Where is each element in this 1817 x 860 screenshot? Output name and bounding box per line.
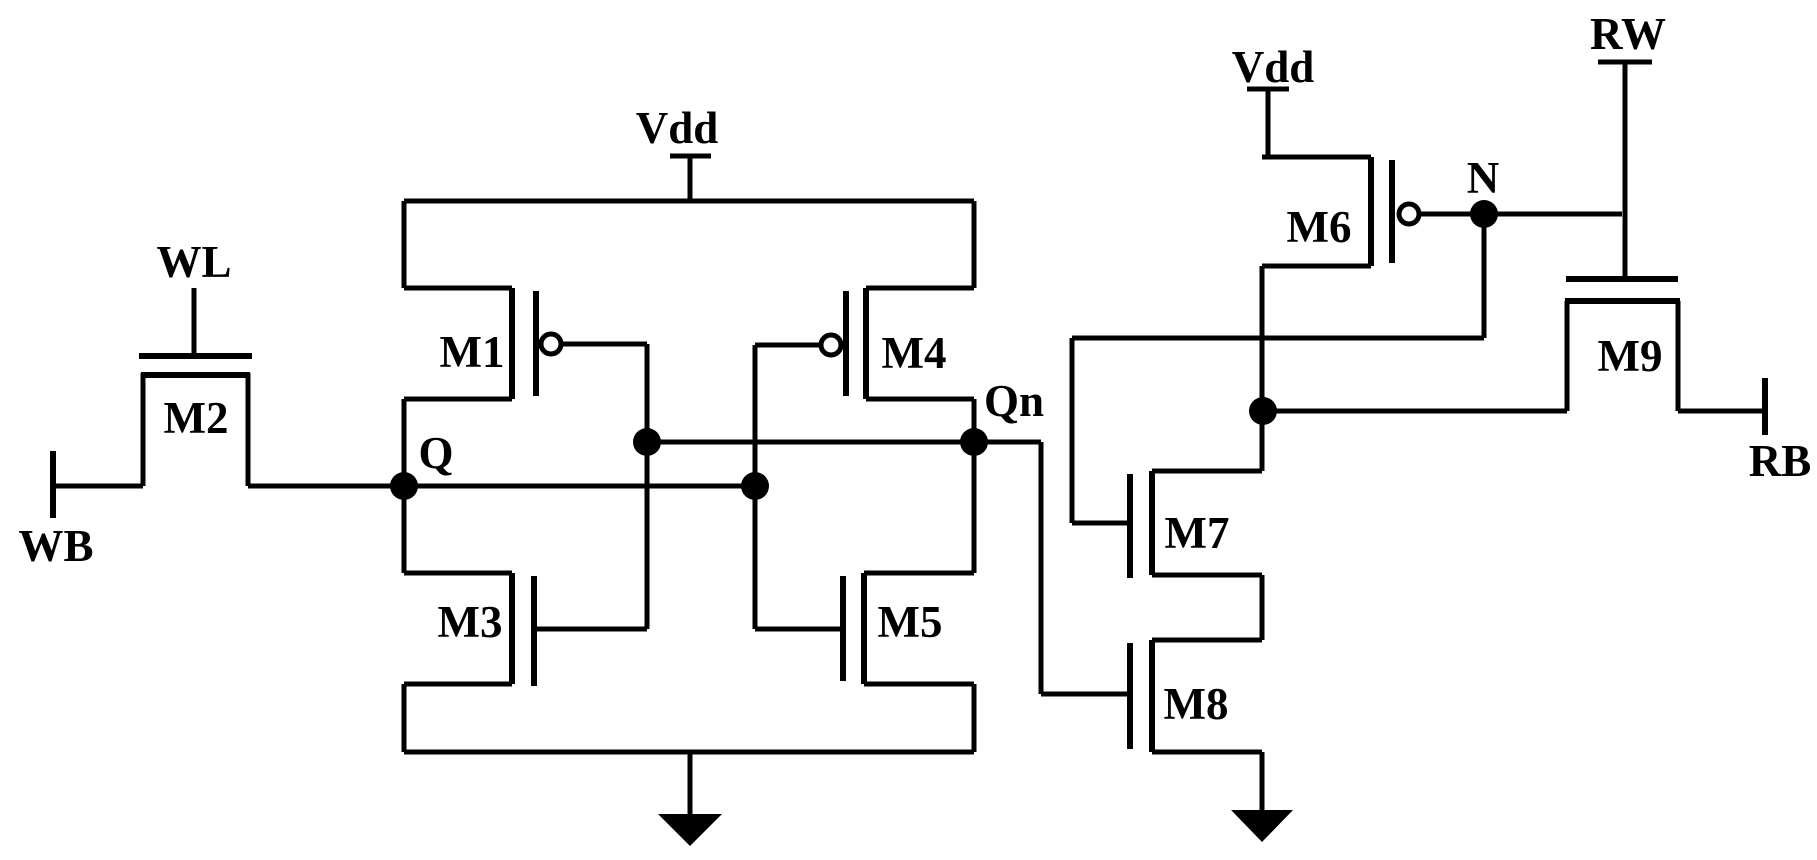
svg-text:M8: M8 (1164, 679, 1229, 729)
svg-text:M5: M5 (878, 597, 943, 647)
svg-text:Qn: Qn (984, 376, 1044, 426)
svg-text:M4: M4 (882, 328, 947, 378)
svg-text:WL: WL (156, 237, 231, 287)
svg-text:M6: M6 (1287, 202, 1352, 252)
svg-text:WB: WB (18, 521, 93, 571)
svg-text:Q: Q (418, 428, 453, 478)
svg-text:M3: M3 (438, 597, 503, 647)
svg-text:M7: M7 (1165, 508, 1230, 558)
svg-text:N: N (1467, 153, 1500, 203)
svg-text:Vdd: Vdd (636, 103, 719, 153)
svg-text:Vdd: Vdd (1232, 42, 1315, 92)
svg-text:M2: M2 (164, 393, 229, 443)
svg-text:RW: RW (1590, 9, 1666, 59)
svg-text:M9: M9 (1598, 331, 1663, 381)
svg-text:M1: M1 (440, 327, 505, 377)
svg-text:RB: RB (1749, 436, 1812, 486)
